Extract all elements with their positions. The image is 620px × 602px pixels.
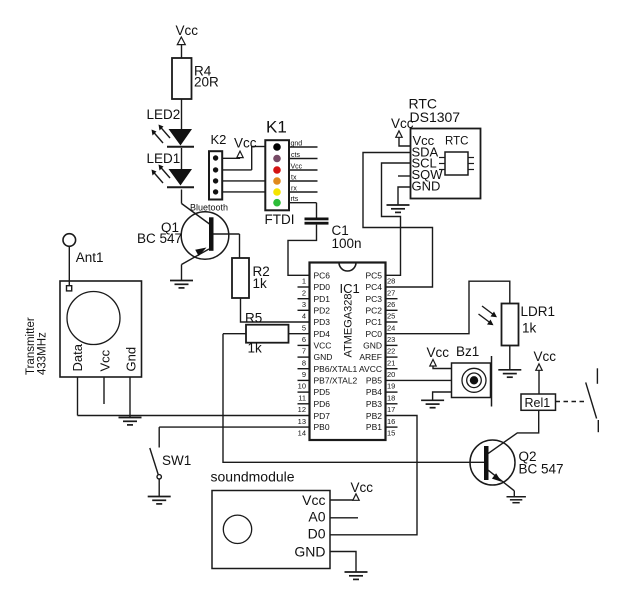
svg-text:14: 14 bbox=[298, 428, 306, 437]
svg-text:A0: A0 bbox=[308, 509, 325, 525]
svg-text:6: 6 bbox=[302, 335, 306, 344]
svg-text:Bluetooth: Bluetooth bbox=[190, 203, 228, 213]
svg-text:PB2: PB2 bbox=[366, 411, 382, 421]
svg-text:16: 16 bbox=[387, 417, 395, 426]
svg-text:22: 22 bbox=[387, 347, 395, 356]
svg-text:11: 11 bbox=[298, 393, 306, 402]
svg-text:5: 5 bbox=[302, 323, 306, 332]
svg-text:1k: 1k bbox=[248, 341, 263, 356]
svg-text:DS1307: DS1307 bbox=[410, 109, 461, 125]
svg-text:D0: D0 bbox=[308, 525, 326, 541]
svg-text:Rel1: Rel1 bbox=[525, 396, 551, 410]
svg-text:PC5: PC5 bbox=[365, 271, 382, 281]
svg-text:SW1: SW1 bbox=[162, 453, 191, 468]
svg-text:433MHz: 433MHz bbox=[37, 332, 49, 375]
svg-text:GND: GND bbox=[363, 341, 382, 351]
svg-text:10: 10 bbox=[298, 382, 306, 391]
svg-text:13: 13 bbox=[298, 417, 306, 426]
svg-text:9: 9 bbox=[302, 370, 306, 379]
svg-text:Vcc: Vcc bbox=[234, 136, 257, 151]
svg-text:FTDI: FTDI bbox=[265, 212, 295, 227]
svg-text:rts: rts bbox=[291, 196, 299, 203]
svg-text:PD7: PD7 bbox=[314, 411, 331, 421]
svg-text:RTC: RTC bbox=[445, 136, 468, 148]
svg-text:23: 23 bbox=[387, 335, 395, 344]
svg-text:PB3: PB3 bbox=[366, 399, 382, 409]
svg-text:PC3: PC3 bbox=[365, 294, 382, 304]
svg-text:Transmitter: Transmitter bbox=[25, 317, 37, 375]
svg-text:soundmodule: soundmodule bbox=[211, 469, 295, 485]
svg-text:cts: cts bbox=[291, 152, 300, 159]
svg-text:PD3: PD3 bbox=[314, 317, 331, 327]
svg-text:GND: GND bbox=[412, 179, 441, 194]
svg-text:25: 25 bbox=[387, 312, 395, 321]
svg-text:Vcc: Vcc bbox=[98, 349, 113, 371]
svg-text:ATMEGA328: ATMEGA328 bbox=[343, 294, 355, 358]
svg-text:Vcc: Vcc bbox=[391, 116, 414, 131]
svg-text:GND: GND bbox=[314, 352, 333, 362]
svg-text:Bz1: Bz1 bbox=[456, 344, 479, 359]
svg-text:20R: 20R bbox=[194, 74, 219, 89]
svg-text:gnd: gnd bbox=[291, 141, 303, 148]
svg-text:R5: R5 bbox=[245, 311, 262, 326]
svg-text:Vcc: Vcc bbox=[291, 164, 303, 171]
svg-text:PD4: PD4 bbox=[314, 329, 331, 339]
svg-text:27: 27 bbox=[387, 288, 395, 297]
svg-text:AREF: AREF bbox=[359, 352, 382, 362]
svg-text:BC 547: BC 547 bbox=[137, 231, 182, 246]
svg-text:12: 12 bbox=[298, 405, 306, 414]
svg-text:PC2: PC2 bbox=[365, 306, 382, 316]
svg-text:PC4: PC4 bbox=[365, 282, 382, 292]
svg-text:VCC: VCC bbox=[314, 341, 332, 351]
svg-text:26: 26 bbox=[387, 300, 395, 309]
svg-text:PC6: PC6 bbox=[314, 271, 331, 281]
svg-text:PB0: PB0 bbox=[314, 422, 330, 432]
svg-text:PB1: PB1 bbox=[366, 422, 382, 432]
svg-text:PD2: PD2 bbox=[314, 306, 331, 316]
svg-text:2: 2 bbox=[302, 288, 306, 297]
svg-text:LDR1: LDR1 bbox=[521, 304, 556, 319]
svg-text:100n: 100n bbox=[332, 236, 362, 251]
svg-text:PC0: PC0 bbox=[365, 329, 382, 339]
svg-text:Vcc: Vcc bbox=[176, 23, 199, 38]
svg-text:3: 3 bbox=[302, 300, 306, 309]
svg-text:PB6/XTAL1: PB6/XTAL1 bbox=[314, 364, 358, 374]
svg-text:K1: K1 bbox=[266, 118, 287, 137]
svg-text:GND: GND bbox=[294, 544, 325, 560]
svg-text:7: 7 bbox=[302, 347, 306, 356]
svg-text:21: 21 bbox=[387, 358, 395, 367]
svg-text:1: 1 bbox=[302, 277, 306, 286]
svg-text:1k: 1k bbox=[522, 321, 537, 336]
svg-text:Ant1: Ant1 bbox=[76, 250, 104, 265]
svg-text:19: 19 bbox=[387, 382, 395, 391]
svg-text:PD1: PD1 bbox=[314, 294, 331, 304]
svg-text:Data: Data bbox=[70, 343, 85, 371]
svg-text:Vcc: Vcc bbox=[534, 349, 557, 364]
svg-text:1k: 1k bbox=[253, 276, 268, 291]
svg-text:LED1: LED1 bbox=[147, 151, 181, 166]
svg-text:8: 8 bbox=[302, 358, 306, 367]
svg-text:17: 17 bbox=[387, 405, 395, 414]
svg-text:4: 4 bbox=[302, 312, 306, 321]
svg-text:LED2: LED2 bbox=[147, 107, 181, 122]
svg-text:20: 20 bbox=[387, 370, 395, 379]
svg-text:PB5: PB5 bbox=[366, 376, 382, 386]
svg-text:15: 15 bbox=[387, 428, 395, 437]
svg-text:tx: tx bbox=[291, 175, 297, 182]
svg-text:Vcc: Vcc bbox=[302, 492, 325, 508]
svg-text:PD5: PD5 bbox=[314, 387, 331, 397]
svg-text:28: 28 bbox=[387, 277, 395, 286]
svg-text:18: 18 bbox=[387, 393, 395, 402]
svg-text:PD6: PD6 bbox=[314, 399, 331, 409]
svg-text:K2: K2 bbox=[211, 132, 227, 147]
svg-text:Gnd: Gnd bbox=[124, 347, 139, 372]
svg-text:PB4: PB4 bbox=[366, 387, 382, 397]
svg-text:rx: rx bbox=[291, 186, 297, 193]
svg-text:PC1: PC1 bbox=[365, 317, 382, 327]
svg-text:24: 24 bbox=[387, 323, 395, 332]
svg-text:PB7/XTAL2: PB7/XTAL2 bbox=[314, 376, 358, 386]
svg-text:Vcc: Vcc bbox=[427, 345, 450, 360]
svg-text:Vcc: Vcc bbox=[351, 480, 374, 495]
svg-text:AVCC: AVCC bbox=[359, 364, 382, 374]
svg-text:PD0: PD0 bbox=[314, 282, 331, 292]
svg-text:BC 547: BC 547 bbox=[519, 462, 564, 477]
